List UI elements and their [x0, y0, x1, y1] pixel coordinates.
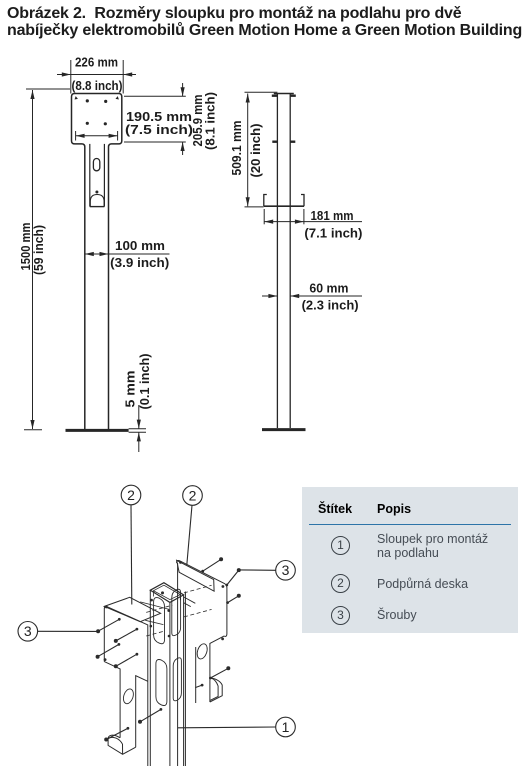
side view: base plate: [262, 428, 306, 431]
svg-text:1500 mm: 1500 mm: [19, 223, 33, 271]
screw 3g head: [237, 568, 241, 572]
screw 3k head: [138, 720, 142, 724]
screw 3k shank tube lower: [140, 709, 161, 721]
front view: 205.9mm dimension line above: [182, 83, 184, 96]
hole dot tube right face a: [167, 609, 170, 612]
front view: 100mm dimension line: [85, 253, 170, 255]
tube upper slot right face: [172, 589, 181, 635]
svg-text:(7.1 inch): (7.1 inch): [304, 227, 362, 241]
side view: 60mm arrow left: [268, 294, 277, 298]
svg-text:2: 2: [189, 487, 197, 503]
front view: 205.9mm extension line top: [124, 95, 186, 97]
front view: inner bracket right edge: [103, 144, 105, 207]
right plate oval hole: [195, 643, 209, 661]
side view: top cap line: [274, 93, 294, 95]
callout circle 3 right: [276, 561, 296, 581]
side view: 60mm arrow right: [290, 294, 299, 298]
left plate bottom hook front bend: [108, 737, 122, 754]
front view: 226mm extension line right: [122, 60, 124, 94]
callout circle 2 left: [121, 485, 141, 505]
side view: 509.1mm extension bottom: [245, 206, 264, 208]
front view: plate corner mark top-left: [75, 96, 78, 99]
side view: 60mm dimension line right: [290, 295, 362, 297]
side view: 509.1mm arrow up: [246, 94, 250, 103]
front view: 190.5mm arrow left: [76, 134, 85, 138]
screw axis line b: [145, 620, 163, 624]
front view: plate hole top-left: [86, 99, 89, 102]
callout leader 2 right: [187, 505, 192, 565]
screw 3h head: [237, 594, 241, 598]
front view: 226mm arrow right: [123, 72, 132, 76]
legend circle 3: [331, 606, 350, 625]
left plate bottom hook back: [108, 735, 136, 754]
side view: 509.1mm extension top: [245, 91, 278, 93]
svg-text:(7.5 inch): (7.5 inch): [125, 123, 193, 137]
svg-text:(59 inch): (59 inch): [32, 225, 46, 275]
hole dot right plate top-right: [222, 585, 225, 588]
front view: inner bracket left edge: [89, 144, 91, 207]
front view: 205.9mm arrow up: [181, 142, 185, 151]
screw 3a head: [96, 629, 100, 633]
column tube top opening inner rim: [154, 585, 181, 599]
front view: 100mm arrow left: [85, 252, 94, 256]
left support plate lower step edge: [136, 676, 148, 748]
dashed axis right plate b: [184, 609, 212, 617]
right plate hook inner: [210, 678, 218, 701]
legend row 1 text: [377, 532, 488, 560]
side view: 181mm arrow left: [264, 220, 273, 224]
bottom isometric drawing: [0, 470, 531, 766]
legend table: [302, 487, 518, 633]
front view: 1500mm dimension line: [32, 90, 34, 429]
svg-text:(3.9 inch): (3.9 inch): [110, 256, 169, 270]
callout circle 2 right: [183, 486, 203, 506]
front view: base plate: [66, 429, 129, 432]
tube lower slot left face: [156, 660, 167, 706]
dashed axis left plate b: [146, 631, 164, 636]
svg-text:3: 3: [24, 623, 32, 639]
svg-text:(2.3 inch): (2.3 inch): [302, 299, 359, 313]
svg-text:190.5 mm: 190.5 mm: [126, 110, 192, 124]
front view: plate hole bottom-right: [104, 122, 107, 125]
side view: mid tab right: [290, 140, 295, 142]
screw axis line a: [140, 602, 169, 609]
callout leader 2 left: [130, 505, 133, 605]
top technical drawing: [0, 0, 531, 470]
table header Popis: [377, 502, 411, 516]
column tube right edge: [183, 595, 185, 766]
screw 3d shank left plate: [116, 654, 137, 666]
legend circle 1: [331, 536, 350, 555]
screw 3c head: [96, 655, 100, 659]
left support plate tongue left edge: [104, 662, 120, 738]
front view: inner bracket bottom line: [90, 206, 105, 208]
legend row 2 text: [377, 577, 468, 591]
screw 3i shank right plate bottom: [210, 668, 228, 678]
callout circle 1: [276, 717, 296, 737]
tube inner wall edge right: [179, 595, 181, 601]
svg-text:(20 inch): (20 inch): [249, 124, 263, 178]
front view: oval slot: [93, 159, 99, 171]
side view: mid tab left: [272, 140, 277, 142]
front view: 226mm arrow left: [62, 72, 71, 76]
screw 3b shank left plate: [116, 629, 137, 641]
left plate oval hole: [122, 688, 135, 705]
dashed axis right plate a: [184, 585, 212, 593]
table header Stitek: [318, 502, 352, 516]
legend row 3 text: [377, 608, 417, 622]
screw 3g shank right plate: [227, 570, 239, 585]
svg-text:(0.1 inch): (0.1 inch): [138, 354, 152, 410]
right support plate tongue left edge: [195, 647, 197, 703]
front view: plate hole bottom-left: [86, 122, 89, 125]
hole dot tube rim: [161, 591, 164, 594]
svg-text:509.1 mm: 509.1 mm: [230, 121, 244, 176]
front view: 190.5mm tick left: [75, 131, 77, 141]
front view: 5mm tick top: [129, 428, 146, 430]
front view: 5mm tick bottom: [129, 431, 146, 433]
front view: 1500mm dimension extension line top: [26, 88, 70, 90]
tube inner wall edge left: [153, 591, 155, 597]
column tube front corner edge: [169, 602, 171, 766]
screw 3j shank right tongue: [195, 685, 202, 688]
screw 3i head: [226, 666, 230, 670]
dashed axis left plate a: [146, 605, 172, 612]
side view: column left edge: [276, 94, 278, 429]
side view: 181mm dimension line: [264, 221, 362, 223]
front view: 1500mm arrow down: [30, 420, 34, 429]
screw 3c shank left plate: [98, 644, 119, 656]
side view: column right edge: [289, 94, 291, 429]
side view: 181mm extension left: [263, 209, 265, 224]
callout leader 1: [178, 726, 276, 729]
right support plate fold crease edge: [177, 563, 179, 766]
front view: 205.9mm dimension line below: [182, 142, 184, 155]
side view: 181mm extension right: [303, 209, 305, 224]
hole dot left plate corner: [105, 606, 108, 609]
front view: 226mm dimension line: [57, 74, 136, 76]
screw 3e shank left plate bottom: [106, 728, 128, 739]
svg-text:181 mm: 181 mm: [311, 209, 354, 223]
svg-text:100 mm: 100 mm: [115, 239, 165, 253]
right support plate face: [177, 560, 227, 702]
screw 3f head: [219, 557, 223, 561]
front view: 100mm arrow right: [100, 252, 109, 256]
front view: mounting plate outline with column neck: [72, 94, 122, 430]
table header rule: [309, 524, 511, 525]
side view: 60mm dimension line left: [262, 295, 277, 297]
tube lower slot right face: [173, 658, 181, 701]
hole dot right plate bottom: [221, 638, 224, 641]
svg-text:1: 1: [282, 719, 290, 735]
front view: 190.5mm dimension line: [76, 135, 118, 137]
right support plate flange: [177, 560, 215, 591]
front view: 190.5mm tick right: [117, 131, 119, 141]
svg-text:(8.1 inch): (8.1 inch): [204, 92, 218, 150]
side view: 509.1mm arrow down: [246, 197, 250, 206]
right plate hook outer: [210, 678, 222, 702]
front view: 1500mm dimension extension tick bottom: [24, 429, 42, 431]
svg-text:5 mm: 5 mm: [124, 371, 138, 408]
front view: bracket dot: [95, 191, 98, 194]
column tube left edge: [149, 590, 151, 766]
side view: support bracket left: [264, 195, 267, 207]
tube upper slot left face: [154, 598, 165, 644]
callout leader 3 left: [38, 630, 97, 632]
right support plate long front edge: [184, 592, 186, 766]
hole dot tube right face b: [168, 635, 171, 638]
left support plate face: [104, 606, 148, 766]
callout circle 3 left: [18, 622, 38, 642]
front view: 226mm extension line left: [70, 60, 72, 94]
screw 3a shank left plate: [98, 619, 119, 631]
side view: 509.1mm dimension line: [247, 94, 249, 207]
left support plate flange: [104, 597, 160, 621]
screw 3b head: [114, 639, 118, 643]
hole dot tube left face a: [150, 599, 153, 602]
column tube top opening outer rim: [150, 583, 183, 603]
side view: top cap tab left: [272, 94, 278, 96]
hole dot tube left face b: [150, 625, 153, 628]
callout leader 3 right: [240, 569, 276, 571]
svg-text:226 mm: 226 mm: [75, 56, 118, 70]
front view: plate hole top-right: [104, 100, 107, 103]
front view: 1500mm arrow up: [30, 90, 34, 99]
hole dot left plate lower: [104, 658, 107, 661]
front view: plate corner mark top-right: [116, 96, 119, 99]
screw 3f shank right plate top: [203, 559, 221, 571]
side view: support bracket right: [301, 195, 304, 207]
right flange edge behind tube b: [184, 603, 191, 607]
screw 3d head: [114, 664, 118, 668]
svg-text:2: 2: [127, 487, 135, 503]
screw 3h shank right plate: [228, 596, 239, 603]
front view: bracket dome arc: [90, 195, 104, 207]
hole dot right plate corner: [179, 561, 182, 564]
front view: 5mm arrow upper: [138, 405, 140, 429]
front view: 190.5mm arrow right: [109, 134, 118, 138]
screw 3e head: [104, 738, 108, 742]
side view: top cap tab right: [290, 94, 296, 96]
svg-text:3: 3: [282, 562, 290, 578]
front view: 5mm arrow lower: [138, 432, 140, 452]
figure caption: [7, 5, 531, 39]
right flange edge behind tube a: [184, 597, 196, 603]
legend circle 2: [331, 574, 350, 593]
side view: support bracket bottom: [264, 205, 304, 207]
hole dot right tongue: [201, 684, 204, 687]
front view: 205.9mm extension line bottom: [124, 141, 186, 143]
svg-text:60 mm: 60 mm: [309, 282, 348, 296]
side view: 181mm arrow right: [295, 220, 304, 224]
svg-text:(8.8 inch): (8.8 inch): [72, 79, 123, 93]
front view: 205.9mm arrow down: [181, 87, 185, 96]
